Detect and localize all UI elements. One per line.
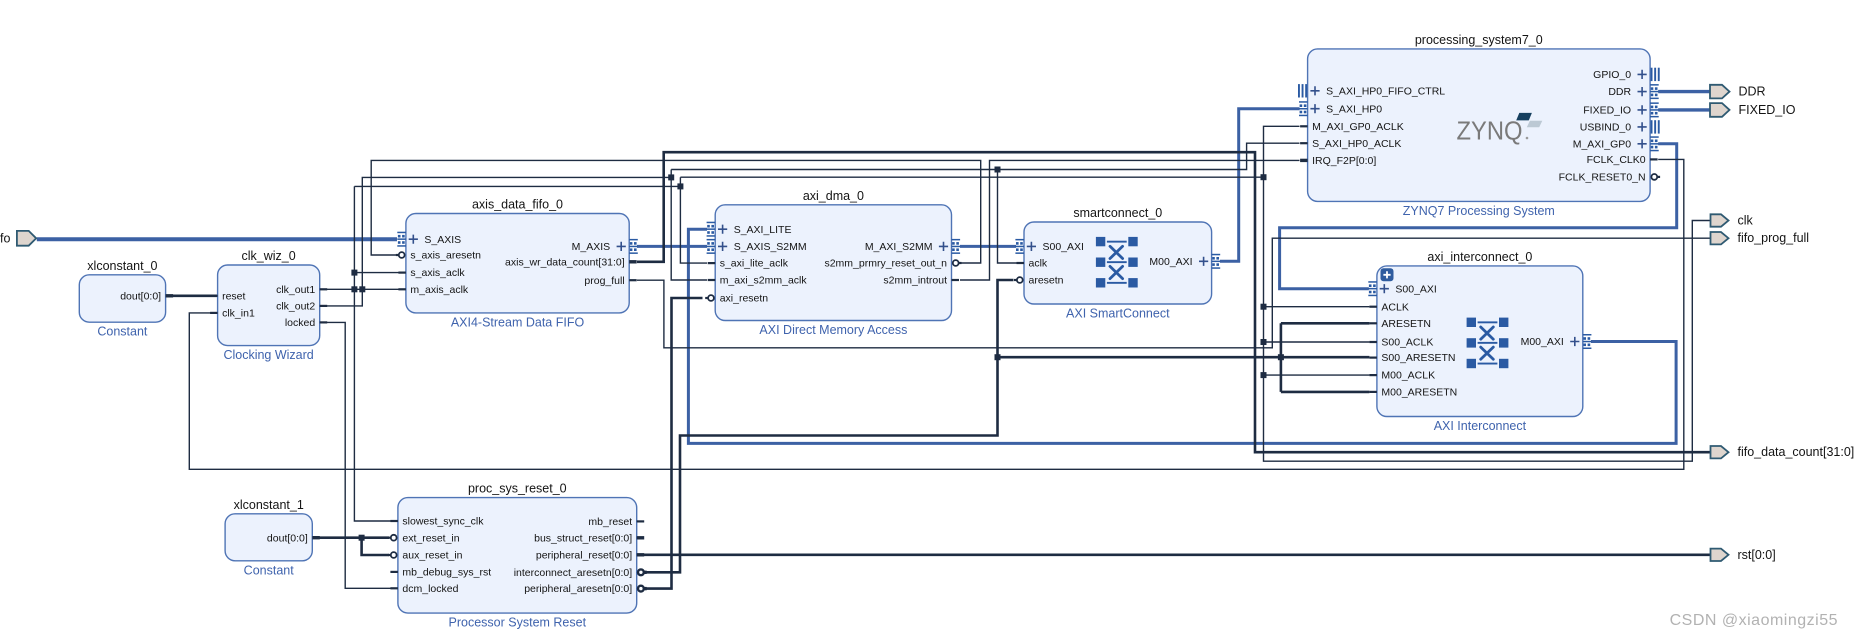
svg-text:S00_AXI: S00_AXI [1043, 241, 1084, 253]
svg-text:M_AXI_GP0_ACLK: M_AXI_GP0_ACLK [1312, 121, 1404, 133]
svg-text:aresetn: aresetn [1029, 275, 1064, 287]
svg-text:GPIO_0: GPIO_0 [1593, 69, 1631, 81]
svg-text:clk_wiz_0: clk_wiz_0 [242, 249, 296, 263]
svg-text:S00_ACLK: S00_ACLK [1381, 337, 1433, 349]
svg-text:Constant: Constant [244, 563, 295, 577]
svg-text:DDR: DDR [1608, 86, 1631, 98]
svg-text:clk_out2: clk_out2 [276, 301, 315, 313]
svg-text:m_axis_aclk: m_axis_aclk [410, 284, 469, 296]
svg-text:proc_sys_reset_0: proc_sys_reset_0 [468, 482, 567, 496]
svg-text:S_AXI_HP0_ACLK: S_AXI_HP0_ACLK [1312, 138, 1401, 150]
svg-text:dout[0:0]: dout[0:0] [267, 532, 308, 544]
svg-text:M00_ARESETN: M00_ARESETN [1381, 387, 1457, 399]
svg-text:S_AXIS_S2MM: S_AXIS_S2MM [734, 241, 807, 253]
svg-text:S00_ARESETN: S00_ARESETN [1381, 352, 1455, 364]
svg-text:S_AXI_HP0_FIFO_CTRL: S_AXI_HP0_FIFO_CTRL [1326, 85, 1445, 97]
svg-text:axi_interconnect_0: axi_interconnect_0 [1427, 250, 1532, 264]
svg-text:M00_AXI: M00_AXI [1149, 256, 1192, 268]
svg-text:M00_ACLK: M00_ACLK [1381, 370, 1435, 382]
svg-text:locked: locked [285, 317, 316, 329]
svg-text:FIXED_IO: FIXED_IO [1739, 103, 1796, 117]
svg-text:ZYNQ7 Processing System: ZYNQ7 Processing System [1403, 204, 1555, 218]
svg-text:mb_debug_sys_rst: mb_debug_sys_rst [402, 567, 491, 579]
svg-text:aclk: aclk [1029, 258, 1048, 270]
svg-text:M_AXI_S2MM: M_AXI_S2MM [865, 241, 933, 253]
svg-text:s_axi_lite_aclk: s_axi_lite_aclk [720, 258, 789, 270]
svg-text:xlconstant_1: xlconstant_1 [234, 498, 304, 512]
svg-text:Processor System Reset: Processor System Reset [449, 616, 587, 630]
svg-text:mb_reset: mb_reset [588, 516, 632, 528]
svg-text:IRQ_F2P[0:0]: IRQ_F2P[0:0] [1312, 155, 1376, 167]
svg-text:prog_full: prog_full [584, 275, 624, 287]
svg-text:axi_dma_0: axi_dma_0 [803, 189, 864, 203]
svg-text:AXI Interconnect: AXI Interconnect [1434, 419, 1527, 433]
svg-text:xlconstant_0: xlconstant_0 [87, 259, 157, 273]
svg-text:clk: clk [1738, 214, 1754, 228]
svg-text:rst[0:0]: rst[0:0] [1738, 548, 1776, 562]
svg-text:peripheral_aresetn[0:0]: peripheral_aresetn[0:0] [524, 583, 632, 595]
svg-text:FCLK_CLK0: FCLK_CLK0 [1587, 154, 1646, 166]
svg-text:axis_data_fifo_0: axis_data_fifo_0 [472, 198, 563, 212]
svg-text:ZYNQ: ZYNQ [1457, 116, 1523, 146]
svg-text:AXI Direct Memory Access: AXI Direct Memory Access [759, 323, 907, 337]
svg-text:s2mm_prmry_reset_out_n: s2mm_prmry_reset_out_n [824, 258, 947, 270]
svg-text:Clocking Wizard: Clocking Wizard [223, 348, 313, 362]
svg-text:FIXED_IO: FIXED_IO [1583, 105, 1631, 117]
svg-text:clk_out1: clk_out1 [276, 284, 315, 296]
svg-text:peripheral_reset[0:0]: peripheral_reset[0:0] [536, 549, 632, 561]
svg-text:M_AXI_GP0: M_AXI_GP0 [1573, 138, 1632, 150]
svg-text:slowest_sync_clk: slowest_sync_clk [402, 516, 484, 528]
svg-text:dcm_locked: dcm_locked [402, 583, 458, 595]
svg-text:USBIND_0: USBIND_0 [1580, 122, 1632, 134]
svg-text:DDR: DDR [1739, 85, 1766, 99]
svg-text:s_axis_aresetn: s_axis_aresetn [410, 250, 481, 262]
svg-text:axis_wr_data_count[31:0]: axis_wr_data_count[31:0] [505, 256, 625, 268]
svg-text:AXI4-Stream Data FIFO: AXI4-Stream Data FIFO [451, 315, 585, 329]
svg-text:m_axi_s2mm_aclk: m_axi_s2mm_aclk [720, 275, 808, 287]
svg-text:ACLK: ACLK [1381, 301, 1408, 313]
svg-text:S00_AXI: S00_AXI [1395, 283, 1436, 295]
svg-text:CSDN @xiaomingzi55: CSDN @xiaomingzi55 [1670, 612, 1838, 629]
svg-text:axi_resetn: axi_resetn [720, 293, 769, 305]
svg-text:ARESETN: ARESETN [1381, 318, 1431, 330]
svg-text:fifo_prog_full: fifo_prog_full [1738, 231, 1810, 245]
svg-text:processing_system7_0: processing_system7_0 [1415, 33, 1543, 47]
svg-text:Constant: Constant [97, 325, 148, 339]
svg-text:reset: reset [222, 290, 245, 302]
svg-text:S_AXI_HP0: S_AXI_HP0 [1326, 103, 1382, 115]
svg-text:AXI SmartConnect: AXI SmartConnect [1066, 307, 1170, 321]
svg-text:M00_AXI: M00_AXI [1521, 336, 1564, 348]
svg-text:s2mm_introut: s2mm_introut [883, 275, 947, 287]
svg-text:dout[0:0]: dout[0:0] [120, 290, 161, 302]
svg-text:S_AXIS: S_AXIS [424, 234, 461, 246]
svg-text:aux_reset_in: aux_reset_in [402, 550, 462, 562]
svg-text:fifo_data_count[31:0]: fifo_data_count[31:0] [1738, 445, 1854, 459]
svg-text:M_AXIS: M_AXIS [572, 241, 611, 253]
svg-text:bus_struct_reset[0:0]: bus_struct_reset[0:0] [534, 532, 632, 544]
svg-text:clk_in1: clk_in1 [222, 308, 255, 320]
svg-text:s_axis_aclk: s_axis_aclk [410, 267, 465, 279]
svg-text:fo: fo [0, 231, 10, 245]
svg-text:interconnect_aresetn[0:0]: interconnect_aresetn[0:0] [514, 567, 633, 579]
svg-text:smartconnect_0: smartconnect_0 [1073, 206, 1162, 220]
svg-text:ext_reset_in: ext_reset_in [402, 532, 459, 544]
svg-text:S_AXI_LITE: S_AXI_LITE [734, 224, 792, 236]
svg-text:FCLK_RESET0_N: FCLK_RESET0_N [1559, 172, 1646, 184]
